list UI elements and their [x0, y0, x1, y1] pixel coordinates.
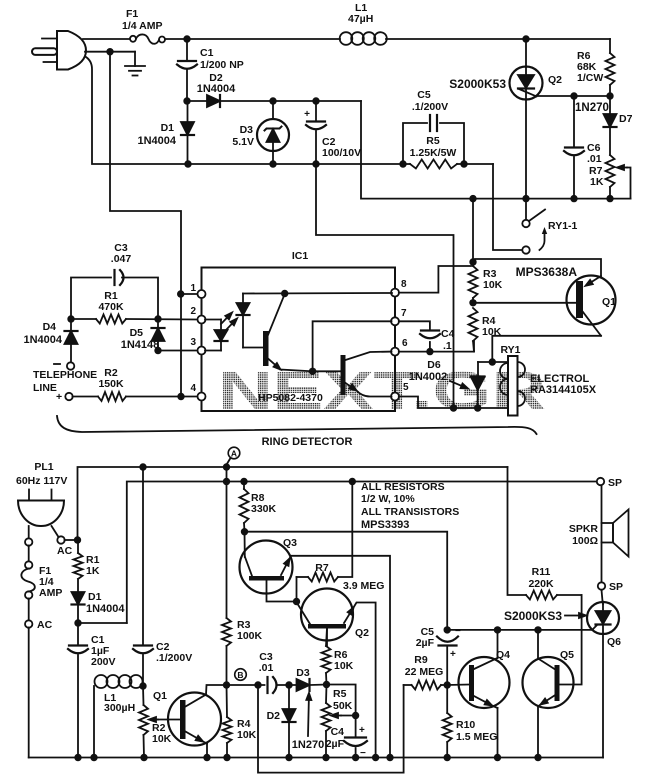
- svg-text:10K: 10K: [334, 660, 354, 672]
- transistor T1 inside IC1: [263, 294, 313, 371]
- resistor R2 150K: [73, 367, 198, 401]
- svg-text:R7: R7: [315, 562, 329, 574]
- svg-text:D3: D3: [240, 124, 254, 136]
- resistor R9 22 MEG: [404, 654, 448, 690]
- svg-text:3.9 MEG: 3.9 MEG: [343, 580, 384, 592]
- svg-text:1.5 MEG: 1.5 MEG: [456, 731, 497, 743]
- svg-text:1/CW: 1/CW: [577, 72, 603, 84]
- svg-text:PL1: PL1: [34, 461, 53, 473]
- capacitor C3 .01 (lower): [227, 651, 297, 693]
- wire: to ground rail: [28, 628, 30, 758]
- ring detector brace: [57, 416, 537, 434]
- svg-text:8: 8: [401, 279, 407, 290]
- svg-text:TELEPHONE: TELEPHONE: [33, 369, 97, 381]
- svg-text:IC1: IC1: [292, 250, 309, 262]
- capacitor C1 1uF 200V: [68, 623, 116, 761]
- terminal AC (left): [25, 620, 32, 627]
- svg-text:2: 2: [190, 306, 196, 317]
- svg-text:1N270: 1N270: [575, 102, 609, 114]
- svg-text:10K: 10K: [152, 733, 172, 745]
- transistor Q1 (lower): [153, 685, 227, 761]
- diode D1 1N4004: [137, 101, 194, 168]
- diode D4 1N4004: [23, 319, 77, 370]
- svg-text:MPS3638A: MPS3638A: [516, 265, 578, 279]
- svg-text:200V: 200V: [91, 656, 116, 668]
- potentiometer R5 50K (lower): [322, 685, 360, 762]
- svg-text:3: 3: [190, 337, 196, 348]
- resistor R1 470K: [67, 290, 197, 324]
- svg-text:2µF: 2µF: [416, 637, 435, 649]
- LED D-input of IC1: [205, 320, 228, 351]
- wire: lower rail to relay contact: [188, 163, 403, 165]
- resistor R3 100K (lower): [222, 467, 263, 689]
- node B: [235, 669, 247, 681]
- svg-text:22 MEG: 22 MEG: [405, 666, 444, 678]
- svg-text:+: +: [56, 391, 62, 403]
- transistor Q2 (lower): [297, 589, 380, 762]
- resistor R6 68K: [577, 39, 615, 96]
- relay contact RY1-1: [522, 199, 577, 254]
- wire: pin 1 lead: [181, 293, 198, 295]
- diode D7 1N270: [575, 96, 633, 155]
- capacitor C4 2µF (lower): [326, 716, 367, 762]
- inductor L1 300µH (lower): [90, 675, 142, 761]
- svg-text:470K: 470K: [98, 301, 124, 313]
- svg-text:150K: 150K: [98, 378, 124, 390]
- wire: Q2 gate to R6/D7: [537, 95, 610, 97]
- svg-text:+: +: [359, 725, 365, 736]
- svg-text:RA3144105X: RA3144105X: [530, 384, 597, 396]
- resistor R8 330K: [240, 482, 277, 536]
- svg-text:1/2 W, 10%: 1/2 W, 10%: [361, 493, 415, 505]
- svg-text:1N4004: 1N4004: [137, 135, 176, 147]
- svg-text:Q6: Q6: [607, 636, 621, 648]
- svg-text:.01: .01: [259, 662, 274, 674]
- wire: rectified bus down: [361, 101, 631, 199]
- capacitor C6 .01: [564, 96, 602, 202]
- wire: pin 5 to relay bottom: [399, 397, 508, 409]
- capacitor C1 1/200NP: [177, 35, 244, 101]
- svg-text:A: A: [231, 449, 237, 459]
- relay coil RY1: [492, 344, 596, 416]
- svg-text:Q5: Q5: [560, 649, 574, 661]
- transistor Q3 (lower): [240, 532, 394, 762]
- svg-text:R11: R11: [532, 566, 551, 578]
- svg-text:Q2: Q2: [548, 74, 562, 86]
- wire: Q3 collector to output stage: [245, 532, 448, 630]
- wire: [28, 599, 30, 621]
- svg-text:1N4148: 1N4148: [121, 339, 160, 351]
- svg-text:1K: 1K: [86, 565, 100, 577]
- svg-text:1K: 1K: [590, 176, 604, 188]
- resistor R11 220K: [508, 467, 582, 600]
- svg-text:50K: 50K: [333, 700, 353, 712]
- svg-text:SPKR: SPKR: [569, 523, 599, 535]
- svg-text:R10: R10: [456, 719, 475, 731]
- wire: internal to pin 8: [243, 292, 392, 295]
- IC1 pins 1-4: [190, 283, 205, 401]
- light arrows: [221, 318, 227, 324]
- potentiometer R2 10K (lower): [139, 686, 180, 761]
- wire plug to fuse F1: [83, 38, 130, 40]
- wire: pin 3 lead: [158, 350, 198, 352]
- wire: pin 7 internal: [313, 321, 392, 371]
- wire: pin 6 lead: [399, 351, 474, 353]
- capacitor C5 2µF: [416, 626, 461, 689]
- capacitor C2 100/10V: [304, 97, 361, 167]
- wire: gate line to Q6: [447, 629, 592, 631]
- svg-text:D2: D2: [267, 710, 281, 722]
- svg-text:60Hz 117V: 60Hz 117V: [16, 475, 67, 487]
- svg-text:1/4 AMP: 1/4 AMP: [122, 20, 162, 32]
- inductor L1 47uH: [340, 2, 387, 45]
- svg-text:+: +: [304, 109, 310, 120]
- wire: line to lower rail: [86, 57, 188, 164]
- wire: C2 bus down to relay return: [316, 164, 454, 408]
- svg-text:ALL RESISTORS: ALL RESISTORS: [361, 481, 445, 493]
- terminal: [25, 538, 32, 545]
- svg-text:F1: F1: [126, 8, 138, 20]
- svg-text:1N4002: 1N4002: [409, 371, 448, 383]
- svg-text:1N4004: 1N4004: [197, 83, 236, 95]
- svg-text:AC: AC: [37, 619, 53, 631]
- diode D2 1N270 (lower): [267, 685, 296, 761]
- svg-text:4: 4: [190, 383, 196, 394]
- svg-text:D3: D3: [296, 667, 310, 679]
- svg-text:RY1: RY1: [500, 344, 520, 356]
- capacitor C3 .047: [71, 242, 158, 319]
- svg-text:220K: 220K: [528, 578, 554, 590]
- fuse F1 (lower): [21, 561, 62, 599]
- svg-text:10K: 10K: [237, 729, 257, 741]
- photodiode of IC1: [237, 294, 264, 348]
- svg-text:D5: D5: [130, 327, 144, 339]
- svg-text:.01: .01: [587, 153, 602, 165]
- svg-text:C5: C5: [417, 89, 431, 101]
- resistor R10 1.5 MEG: [443, 685, 498, 761]
- speaker SPKR 100 ohm: [569, 477, 629, 604]
- svg-text:1: 1: [190, 283, 196, 294]
- wire: top AC hot rail: [165, 38, 340, 40]
- diode D6 1N4002: [409, 358, 496, 411]
- terminal AC (right): [52, 526, 59, 537]
- svg-text:1N4004: 1N4004: [23, 334, 62, 346]
- svg-text:C4: C4: [441, 328, 455, 340]
- IC1 pins 5-8: [391, 279, 409, 401]
- SCR Q6 S2000KS3: [504, 602, 621, 758]
- resistor R1 1K (lower): [74, 540, 100, 592]
- wire: PL1 left lead: [28, 526, 30, 539]
- svg-text:Q1: Q1: [153, 690, 167, 702]
- fuse F1: [122, 8, 165, 44]
- diode D5 1N4148: [121, 319, 165, 354]
- svg-text:S2000KS3: S2000KS3: [504, 609, 562, 623]
- svg-text:1.25K/5W: 1.25K/5W: [410, 147, 457, 159]
- telephone line terminals: [33, 364, 97, 403]
- svg-text:10K: 10K: [483, 279, 503, 291]
- svg-text:S2000K53: S2000K53: [449, 77, 506, 91]
- svg-text:47µH: 47µH: [348, 13, 373, 25]
- transistor Q1 MPS3638A: [473, 259, 616, 362]
- svg-text:B: B: [237, 670, 243, 680]
- svg-text:−: −: [455, 626, 461, 637]
- svg-text:+: +: [450, 649, 456, 660]
- diode D3 (lower): [296, 667, 330, 691]
- svg-text:AC: AC: [57, 545, 73, 557]
- optocoupler IC1 HP5082-4370 box: [202, 268, 396, 412]
- wire: pin 8 lead: [399, 266, 471, 293]
- svg-text:Q4: Q4: [496, 649, 510, 661]
- svg-text:HP5082-4370: HP5082-4370: [258, 392, 323, 404]
- capacitor C2 .1/200V (lower): [133, 467, 192, 690]
- AC plug PL1: [16, 461, 67, 526]
- svg-text:2µF: 2µF: [326, 738, 345, 750]
- svg-text:7: 7: [401, 308, 407, 319]
- resistor R3 10K: [469, 195, 503, 307]
- svg-text:MPS3393: MPS3393: [361, 519, 409, 531]
- AC plug (wall plug, top section): [32, 31, 86, 70]
- resistor R7 3.9 MEG (lower): [293, 482, 385, 606]
- svg-text:D7: D7: [619, 113, 633, 125]
- svg-text:Q2: Q2: [355, 627, 369, 639]
- svg-text:100K: 100K: [237, 630, 263, 642]
- svg-text:Q3: Q3: [283, 537, 297, 549]
- svg-text:D1: D1: [161, 122, 175, 134]
- svg-text:ALL TRANSISTORS: ALL TRANSISTORS: [361, 506, 459, 518]
- ground: [125, 66, 145, 76]
- resistor R4 10K: [469, 308, 502, 352]
- capacitor C4 .1: [399, 321, 455, 355]
- resistor R6 10K (lower): [322, 628, 354, 685]
- svg-text:100Ω: 100Ω: [572, 535, 598, 547]
- capacitor C5 .1/200V: [403, 89, 464, 164]
- svg-text:SP: SP: [608, 477, 622, 489]
- svg-text:1N4004: 1N4004: [86, 603, 125, 615]
- svg-text:SP: SP: [609, 581, 623, 593]
- svg-text:RY1-1: RY1-1: [548, 220, 578, 232]
- svg-text:D4: D4: [43, 321, 57, 333]
- svg-text:6: 6: [402, 338, 408, 349]
- resistor R5 1.25K/5W: [399, 135, 467, 169]
- svg-text:R5: R5: [426, 135, 440, 147]
- transistor Q4: [447, 626, 510, 761]
- wire: feedback line: [258, 685, 404, 773]
- node A: [228, 447, 240, 459]
- svg-text:1/200 NP: 1/200 NP: [200, 59, 244, 71]
- wire: rectifier output: [78, 622, 127, 624]
- svg-text:RING DETECTOR: RING DETECTOR: [262, 436, 353, 448]
- svg-text:1N270: 1N270: [292, 739, 324, 751]
- wire: supply rail lower: [127, 482, 596, 624]
- svg-text:AMP: AMP: [39, 587, 62, 599]
- potentiometer R7 1K: [589, 155, 631, 202]
- svg-text:.047: .047: [111, 253, 132, 265]
- svg-text:C1: C1: [200, 47, 214, 59]
- svg-text:.1/200V: .1/200V: [156, 652, 192, 664]
- resistor R4 10K (lower): [223, 685, 257, 761]
- svg-text:D1: D1: [88, 591, 102, 603]
- svg-text:R5: R5: [333, 688, 347, 700]
- svg-text:.1/200V: .1/200V: [412, 101, 448, 113]
- wire: bottom ground rail: [29, 757, 603, 759]
- svg-text:LINE: LINE: [33, 382, 57, 394]
- svg-text:C4: C4: [331, 726, 345, 738]
- svg-text:300µH: 300µH: [104, 702, 135, 714]
- wire plug neutral: [85, 51, 135, 53]
- SCR Q2 S2000K53: [449, 35, 562, 202]
- diode D1 1N4004 (lower): [72, 591, 126, 627]
- diode D2 1N4004: [183, 72, 361, 107]
- svg-text:5: 5: [403, 382, 409, 393]
- transistor T2 inside IC1: [313, 352, 392, 397]
- svg-text:330K: 330K: [251, 503, 277, 515]
- svg-text:Q1: Q1: [602, 296, 616, 308]
- zener D3 5.1V: [232, 97, 289, 167]
- svg-text:100/10V: 100/10V: [322, 147, 361, 159]
- svg-text:D6: D6: [427, 359, 441, 371]
- svg-text:5.1V: 5.1V: [232, 136, 254, 148]
- wire: supply rail upper: [78, 467, 508, 540]
- svg-text:.1: .1: [443, 340, 452, 352]
- wire: [28, 546, 30, 562]
- wire: neutral down to telephone input: [110, 52, 181, 397]
- transistor Q5: [523, 595, 582, 761]
- svg-text:R9: R9: [414, 654, 428, 666]
